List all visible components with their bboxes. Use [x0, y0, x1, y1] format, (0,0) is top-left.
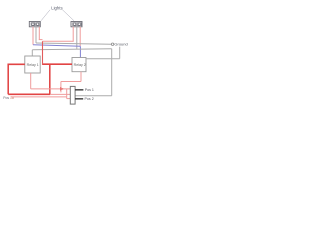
svg-text:Lights: Lights — [51, 5, 62, 10]
wire thick red feed: relay1 left — [8, 63, 25, 65]
wire red bus y41 — [43, 40, 74, 42]
wire relay2 bottom drop (red) — [80, 72, 82, 82]
wire blue drop to relay 2 (blue) — [79, 46, 81, 57]
wire wiper feed thin (red) — [50, 93, 70, 95]
wire pos2 feed into switch (red) — [67, 98, 71, 100]
wire red riser to bus (red) — [42, 41, 44, 65]
leader line to connector J2 — [63, 10, 75, 21]
wire J2 left pin down (red) — [72, 27, 74, 42]
wire relay2 route drop (red) — [60, 82, 62, 93]
wire J2 center pin down (grey) — [76, 27, 78, 49]
wire G2 right drop (grey) — [111, 49, 113, 96]
wire thick red bottom run — [8, 93, 50, 95]
wire G2 drop into relay 1 top (grey) — [31, 50, 33, 56]
svg-text:Ground: Ground — [114, 41, 127, 46]
ground terminal circle — [111, 43, 113, 45]
wire ground bus G1 (grey) — [36, 43, 111, 44]
connector J1 — [29, 22, 40, 27]
wire thick red feed relay2 left — [43, 63, 73, 65]
wire J1 left pin down (red) — [32, 27, 34, 45]
relay K2 — [72, 58, 86, 72]
wire Pos 1a input line (red) — [11, 96, 67, 98]
svg-text:Relay 2: Relay 2 — [74, 63, 86, 67]
svg-text:Pos 2: Pos 2 — [85, 97, 94, 101]
wire drop to pos2 level (red) — [66, 89, 68, 99]
wire J1 right pin down (red) — [38, 27, 40, 40]
svg-text:Pos 1: Pos 1 — [85, 88, 94, 92]
wire to switch wiper (grey) — [75, 95, 112, 97]
leader line to connector J1 — [41, 10, 50, 21]
wire switched bus G2 (grey) — [32, 49, 111, 50]
wire relay2 route left (red) — [61, 81, 81, 83]
wire thick red left riser — [7, 64, 9, 95]
arrowhead junction — [60, 88, 63, 91]
connector J2 — [71, 22, 82, 27]
switch contact Pos 2 — [75, 98, 83, 99]
wire thick red mid riser — [49, 64, 51, 94]
wire J2 right pin down (red) — [79, 27, 81, 46]
wire ground riser (grey) — [119, 47, 121, 59]
wire relay1 bottom drop (red) — [30, 73, 32, 89]
wire J1 center pin down (grey) — [35, 27, 37, 43]
switch contact Pos 1 — [75, 89, 83, 90]
wire blue bus — [33, 45, 80, 47]
wire relay2 right to ground (grey) — [86, 58, 120, 60]
svg-text:Relay 1: Relay 1 — [27, 63, 39, 67]
switch S1 body — [70, 86, 75, 104]
wire pos1 feed run (red) — [31, 88, 71, 90]
svg-text:Pos 1a: Pos 1a — [3, 96, 14, 100]
relay K1 — [25, 56, 40, 73]
wire jog right (red) — [39, 39, 43, 41]
